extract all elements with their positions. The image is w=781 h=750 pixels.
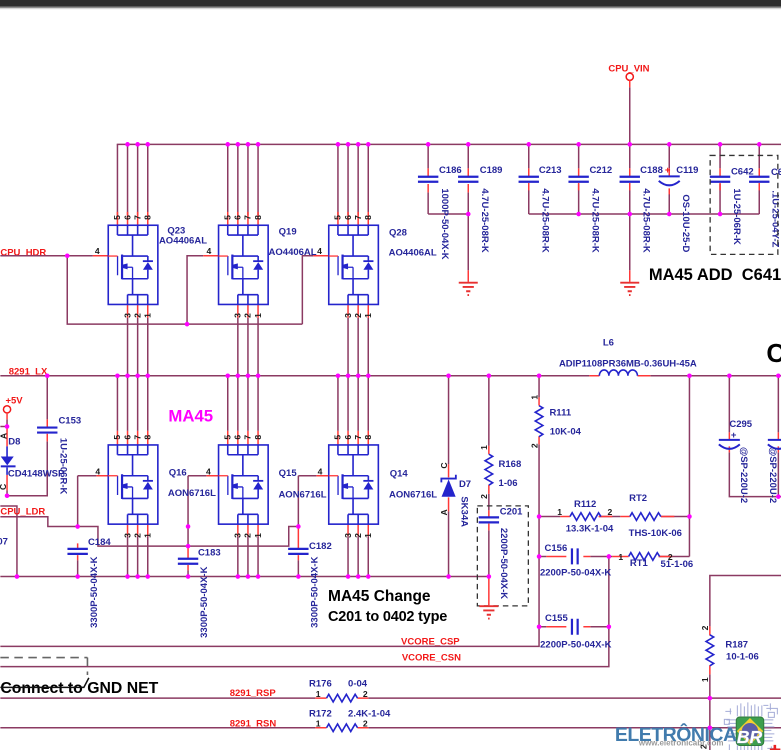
svg-text:8: 8 <box>253 435 263 440</box>
wire: gnd stem group2 <box>629 214 631 270</box>
svg-text:5: 5 <box>222 215 232 220</box>
svg-text:C156: C156 <box>545 543 568 554</box>
transistor Q19 <box>219 225 269 304</box>
wire: VCORE_CSN line <box>0 627 609 667</box>
svg-text:2: 2 <box>607 507 612 517</box>
svg-text:1: 1 <box>142 313 152 318</box>
grey dashed annotation lines <box>0 658 87 675</box>
dots on CPU_HDR net <box>65 253 70 258</box>
svg-text:2200P-50-04X-K: 2200P-50-04X-K <box>540 568 611 579</box>
svg-text:7: 7 <box>243 215 253 220</box>
svg-text:2: 2 <box>132 313 142 318</box>
svg-text:R112: R112 <box>574 499 596 510</box>
diode D7 SK34A <box>448 376 450 577</box>
svg-text:@SP-220U-2: @SP-220U-2 <box>738 447 749 503</box>
svg-text:C641: C641 <box>771 167 781 178</box>
svg-text:1: 1 <box>557 507 562 517</box>
svg-text:8: 8 <box>253 215 263 220</box>
svg-text:C213: C213 <box>539 165 562 176</box>
svg-text:R111: R111 <box>549 408 571 419</box>
wire: LX feedback rail <box>688 376 690 557</box>
svg-text:MA45 ADD C641: MA45 ADD C641 <box>649 266 781 284</box>
svg-text:CPU_LDR: CPU_LDR <box>0 506 45 517</box>
svg-text:+5V: +5V <box>5 395 23 406</box>
pin number digits top row transistors <box>112 215 373 318</box>
svg-text:C182: C182 <box>309 541 332 552</box>
diode D8 CD4148WSP <box>6 413 8 419</box>
transistor Q15 <box>219 445 269 524</box>
svg-text:C: C <box>766 338 781 368</box>
svg-text:1: 1 <box>142 533 152 538</box>
pin number digits bottom row transistors <box>112 435 373 538</box>
svg-text:6: 6 <box>122 435 132 440</box>
svg-text:4: 4 <box>207 246 212 256</box>
svg-text:4.7U-25-08R-K: 4.7U-25-08R-K <box>479 188 490 253</box>
svg-text:C: C <box>439 462 449 468</box>
red plus mark bottom right corner <box>770 745 781 750</box>
SECTION:TOPBAR <box>0 0 781 7</box>
wire: bottom source bus (GND net) <box>0 576 489 578</box>
wire: CPU_HDR drop and distribution to Q19/Q28 gates <box>67 256 313 324</box>
wires: LX bus down to Q16/Q15/Q14 top pins <box>117 376 368 431</box>
capacitor C212 <box>568 177 588 182</box>
gate wire Q14 <box>316 475 328 477</box>
capacitor C186 <box>418 177 438 182</box>
svg-text:4: 4 <box>318 467 323 477</box>
resistor R111 <box>538 376 540 517</box>
svg-text:C: C <box>0 484 8 490</box>
svg-text:R176: R176 <box>309 679 332 690</box>
svg-text:RT1: RT1 <box>630 558 649 569</box>
ground below C201 <box>488 577 490 606</box>
wire: 8291_LX bus left segment <box>0 375 589 377</box>
svg-text:ADIP1108PR36MB-0.36UH-45A: ADIP1108PR36MB-0.36UH-45A <box>559 359 697 370</box>
svg-text:1: 1 <box>316 718 321 728</box>
dot at +5V <box>5 424 10 429</box>
svg-text:3: 3 <box>122 533 132 538</box>
svg-text:4.7U-25-08R-K: 4.7U-25-08R-K <box>539 188 550 253</box>
svg-text:3: 3 <box>343 313 353 318</box>
junction dots on VIN bus <box>5 142 781 629</box>
svg-text:Q28: Q28 <box>389 228 407 239</box>
dot C295 bottom rail <box>776 494 781 499</box>
wire: 8291_RSN line <box>0 727 781 729</box>
svg-text:1: 1 <box>253 313 263 318</box>
svg-text:CPU_HDR: CPU_HDR <box>0 247 46 258</box>
svg-text:2: 2 <box>529 443 539 448</box>
svg-text:0-04: 0-04 <box>348 679 368 690</box>
capacitor C156 <box>572 548 578 564</box>
svg-text:D8: D8 <box>8 437 20 448</box>
svg-text:2: 2 <box>132 533 142 538</box>
svg-text:C201 to 0402 type: C201 to 0402 type <box>328 609 447 625</box>
wire: gnd stem group1 <box>467 214 469 270</box>
svg-text:6: 6 <box>233 435 243 440</box>
svg-text:@SP-220U-2: @SP-220U-2 <box>767 447 778 503</box>
svg-text:4: 4 <box>206 467 211 477</box>
svg-text:1: 1 <box>363 313 373 318</box>
svg-text:3: 3 <box>233 533 243 538</box>
svg-text:D7: D7 <box>459 479 471 490</box>
chip body (brazil flag theme) <box>736 717 764 746</box>
svg-text:OS-10U-25-D: OS-10U-25-D <box>680 194 691 252</box>
capacitor C119 polarized <box>659 176 680 185</box>
svg-text:www.eletronicabr.com: www.eletronicabr.com <box>638 738 724 747</box>
svg-text:4.7U-25-08R-K: 4.7U-25-08R-K <box>589 188 600 253</box>
resistor RT1 <box>629 553 660 561</box>
svg-text:6: 6 <box>343 215 353 220</box>
dots on bottom source bus <box>15 574 20 579</box>
svg-text:C184: C184 <box>88 537 111 548</box>
svg-text:7: 7 <box>132 215 142 220</box>
svg-text:2: 2 <box>363 689 368 699</box>
svg-text:5: 5 <box>222 435 232 440</box>
transistor Q23 <box>108 225 158 304</box>
svg-text:1: 1 <box>529 395 539 400</box>
wire: sub-bus group2 <box>529 213 760 215</box>
svg-text:.1U-25-04Y-Z: .1U-25-04Y-Z <box>770 190 781 247</box>
svg-text:1000P-50-04X-K: 1000P-50-04X-K <box>439 188 450 259</box>
SECTION:LOGO <box>615 702 781 750</box>
chip pin traces decoration <box>724 702 777 750</box>
svg-text:+: + <box>665 165 671 176</box>
svg-text:51-1-06: 51-1-06 <box>660 559 693 570</box>
capacitor C188 <box>620 177 640 182</box>
wire: right sense rail <box>608 556 610 626</box>
svg-text:3: 3 <box>233 313 243 318</box>
svg-text:Q15: Q15 <box>279 468 298 479</box>
wires: Q23/Q19/Q28 bottom pins 3,2,1 to LX bus <box>128 304 369 317</box>
svg-text:RT2: RT2 <box>629 493 647 504</box>
cap column wires group 1 (C186,C189) <box>428 144 468 270</box>
svg-text:7: 7 <box>243 435 253 440</box>
capacitor C189 <box>458 177 478 182</box>
svg-text:4: 4 <box>95 467 100 477</box>
dots on gate net <box>75 524 80 529</box>
svg-text:+: + <box>731 430 737 441</box>
resistor R176 <box>315 697 368 699</box>
dashed box around C201 <box>477 506 528 606</box>
svg-text:1U-25-06R-K: 1U-25-06R-K <box>58 438 69 495</box>
pin4 stub Q28 <box>313 255 328 257</box>
wire: gate bus of bottom row <box>78 526 299 546</box>
svg-text:SK34A: SK34A <box>458 496 469 527</box>
transistor Q28 <box>329 225 379 304</box>
svg-text:C188: C188 <box>640 165 663 176</box>
svg-text:2.4K-1-04: 2.4K-1-04 <box>348 709 391 720</box>
svg-text:1: 1 <box>363 533 373 538</box>
svg-text:2: 2 <box>363 718 368 728</box>
wire: 8291_RSP line <box>0 697 781 699</box>
svg-text:07: 07 <box>0 536 8 547</box>
svg-text:1U-25-06R-K: 1U-25-06R-K <box>731 188 742 245</box>
svg-text:5: 5 <box>333 215 343 220</box>
wire: R187 branch vertical <box>710 576 781 750</box>
wire: sub-bus group1 <box>428 213 468 215</box>
svg-text:7: 7 <box>132 435 142 440</box>
svg-text:7: 7 <box>353 215 363 220</box>
svg-text:AON6716L: AON6716L <box>168 488 216 499</box>
capacitor C183 <box>187 546 189 570</box>
wire: VCORE_CSP line <box>0 627 539 647</box>
svg-text:2: 2 <box>353 533 363 538</box>
svg-text:3: 3 <box>122 313 132 318</box>
svg-text:AO4406AL: AO4406AL <box>269 247 317 258</box>
svg-text:CD4148WSP: CD4148WSP <box>8 469 65 480</box>
svg-text:5: 5 <box>333 435 343 440</box>
capacitor C295 column <box>729 376 781 497</box>
thermistor RT2 <box>630 513 661 521</box>
svg-text:R187: R187 <box>725 640 748 651</box>
svg-text:5: 5 <box>112 435 122 440</box>
wire: top VIN bus <box>117 143 781 145</box>
svg-text:1: 1 <box>479 445 489 450</box>
svg-text:2: 2 <box>479 494 489 499</box>
capacitor C201 <box>479 517 499 522</box>
svg-text:2200P-50-04X-K: 2200P-50-04X-K <box>498 528 509 599</box>
svg-text:3300P-50-04X-K: 3300P-50-04X-K <box>310 556 321 627</box>
svg-text:4: 4 <box>95 246 100 256</box>
capacitor C213 <box>519 177 539 182</box>
svg-text:7: 7 <box>353 435 363 440</box>
svg-text:6: 6 <box>233 215 243 220</box>
resistor R187 <box>709 626 711 674</box>
svg-text:1: 1 <box>700 677 710 682</box>
wire: 8291_LX bus right segment <box>650 375 781 377</box>
resistor R112 <box>570 513 601 521</box>
svg-text:5: 5 <box>112 215 122 220</box>
svg-text:8: 8 <box>363 215 373 220</box>
svg-text:8291_LX: 8291_LX <box>9 366 48 377</box>
dots on sense rails <box>537 514 542 519</box>
wires: Q23 top pins 5-8 to VIN bus <box>117 144 368 215</box>
svg-text:10-1-06: 10-1-06 <box>726 651 759 662</box>
svg-text:8: 8 <box>142 215 152 220</box>
svg-text:1-06: 1-06 <box>499 478 518 489</box>
svg-text:3: 3 <box>343 533 353 538</box>
C156/RT1 row <box>539 555 672 557</box>
svg-text:8: 8 <box>363 435 373 440</box>
svg-text:2: 2 <box>243 533 253 538</box>
svg-text:AO4406AL: AO4406AL <box>159 236 207 247</box>
wire: left entry to bottom bus <box>0 506 17 576</box>
svg-text:C186: C186 <box>439 165 462 176</box>
svg-text:R172: R172 <box>309 709 332 720</box>
gate wire Q16 <box>96 475 108 477</box>
svg-text:C212: C212 <box>589 165 612 176</box>
svg-text:THS-10K-06: THS-10K-06 <box>629 528 682 539</box>
svg-text:VCORE_CSN: VCORE_CSN <box>402 652 461 663</box>
wire CPU_HDR to Q23 pin4 <box>0 255 93 257</box>
svg-text:MA45 Change: MA45 Change <box>328 588 431 605</box>
svg-text:AON6716L: AON6716L <box>278 489 326 500</box>
svg-text:6: 6 <box>343 435 353 440</box>
svg-text:A: A <box>0 433 8 439</box>
resistor R172 <box>315 727 368 729</box>
svg-text:8291_RSN: 8291_RSN <box>230 718 277 729</box>
capacitor C641 <box>749 177 769 182</box>
svg-text:1: 1 <box>253 533 263 538</box>
wire CPU_LDR feed <box>0 517 77 527</box>
svg-text:AON6716L: AON6716L <box>389 489 437 500</box>
svg-text:R168: R168 <box>499 459 522 470</box>
svg-text:Q19: Q19 <box>279 227 297 238</box>
dots on sub-buses <box>466 212 471 217</box>
svg-text:Connect to GND NET: Connect to GND NET <box>0 680 158 697</box>
dots on 8291_LX bus <box>45 373 50 378</box>
svg-text:C119: C119 <box>676 165 698 176</box>
ground group2 <box>620 283 639 295</box>
dot at D8/C153 junction <box>5 493 10 498</box>
svg-text:4: 4 <box>317 246 322 256</box>
capacitor C182 <box>297 526 299 560</box>
svg-text:2: 2 <box>243 313 253 318</box>
svg-text:Q16: Q16 <box>169 467 187 478</box>
capacitor C642 <box>710 177 730 182</box>
svg-text:C295: C295 <box>729 419 752 430</box>
svg-text:MA45: MA45 <box>168 406 213 425</box>
inductor L6 <box>589 375 650 377</box>
svg-text:C155: C155 <box>545 613 568 624</box>
svg-text:4.7U-25-08R-K: 4.7U-25-08R-K <box>640 188 651 253</box>
C155 row <box>539 626 609 628</box>
svg-text:2200P-50-04X-K: 2200P-50-04X-K <box>540 640 611 651</box>
capacitor at right edge (clipped) <box>777 376 779 497</box>
svg-text:C201: C201 <box>500 506 523 517</box>
svg-text:6: 6 <box>122 215 132 220</box>
svg-text:A: A <box>439 509 449 515</box>
svg-text:1: 1 <box>618 552 623 562</box>
dashed highlight box around C642/C641 <box>710 155 778 254</box>
svg-text:VCORE_CSP: VCORE_CSP <box>401 637 460 648</box>
gate wire Q15 <box>206 475 218 477</box>
capacitor C153 column <box>7 376 47 496</box>
capacitor C184 <box>77 543 79 560</box>
svg-text:C189: C189 <box>480 165 503 176</box>
svg-text:AO4406AL: AO4406AL <box>389 247 437 258</box>
svg-text:Q14: Q14 <box>390 469 409 480</box>
svg-text:1: 1 <box>316 689 321 699</box>
cap column wires group 2 (C213,C212,C188,C119,C642,C641) <box>529 144 760 270</box>
capacitor C155 <box>572 619 578 635</box>
ground group1 <box>459 283 478 295</box>
svg-text:BR: BR <box>737 727 763 747</box>
svg-text:13.3K-1-04: 13.3K-1-04 <box>566 523 614 534</box>
svg-text:L6: L6 <box>603 337 614 348</box>
svg-text:2: 2 <box>700 625 710 630</box>
svg-text:10K-04: 10K-04 <box>550 426 582 437</box>
svg-text:3300P-50-04X-K: 3300P-50-04X-K <box>89 556 100 627</box>
wire: left sense rail <box>538 517 540 627</box>
svg-text:C153: C153 <box>58 416 81 427</box>
wires: bottom pins to source bus <box>128 524 369 536</box>
svg-text:3300P-50-04X-K: 3300P-50-04X-K <box>199 566 210 637</box>
svg-text:C183: C183 <box>198 547 221 558</box>
pin4 stub Q19 <box>203 255 218 257</box>
junction dots over logo <box>708 696 713 701</box>
transistor Q14 <box>329 445 379 524</box>
resistor R168 <box>488 376 490 577</box>
svg-text:2: 2 <box>353 313 363 318</box>
R112/RT2 row <box>539 516 689 518</box>
svg-text:8: 8 <box>142 435 152 440</box>
svg-text:8291_RSP: 8291_RSP <box>230 688 277 699</box>
transistor Q16 <box>108 445 158 524</box>
